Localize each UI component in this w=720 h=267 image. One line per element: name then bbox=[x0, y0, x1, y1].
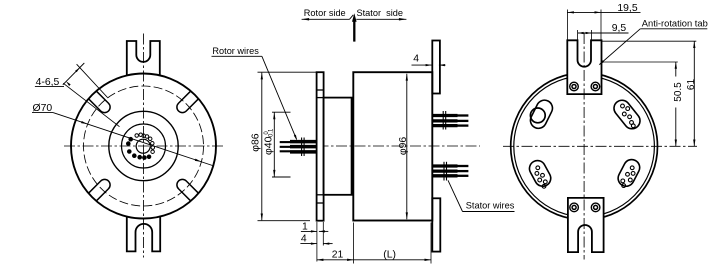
stator flange top tab bbox=[432, 41, 440, 94]
right view: top-left slot circle bbox=[530, 108, 545, 123]
stator wires upper bundle bbox=[432, 111, 468, 130]
svg-text:Stator side: Stator side bbox=[357, 8, 403, 18]
svg-text:21: 21 bbox=[332, 250, 344, 261]
dimension 4 (stator flange thickness) bbox=[412, 53, 446, 66]
right view: contact pad bottom-right bbox=[615, 157, 642, 189]
label Anti-rotation tab bbox=[599, 19, 708, 66]
svg-text:Anti-rotation tab: Anti-rotation tab bbox=[642, 19, 708, 29]
label Rotor side / Stator side bbox=[302, 8, 407, 21]
left view: rim slot bottom-right bbox=[177, 179, 199, 201]
left view: centerlines bbox=[64, 34, 223, 258]
rotor wires bundle bbox=[280, 138, 317, 157]
svg-text:61: 61 bbox=[686, 79, 697, 91]
middle view: centerline bbox=[299, 145, 480, 147]
dimension (L) bbox=[354, 223, 431, 264]
rotor flange step lines bbox=[317, 90, 324, 203]
svg-text:Rotor side: Rotor side bbox=[304, 8, 346, 18]
right view: bottom tab rivet left bbox=[570, 203, 579, 212]
left view: inner circle bbox=[122, 124, 166, 168]
svg-text:4: 4 bbox=[301, 234, 307, 245]
right view: anti-rotation tab top bbox=[567, 40, 601, 94]
dimension 61 bbox=[602, 41, 697, 146]
stator flange bottom tab bbox=[432, 198, 440, 251]
rotor flange plate bbox=[317, 72, 324, 221]
right view: top tab rivet right bbox=[591, 82, 600, 91]
right view: top tab rivet left bbox=[570, 82, 579, 91]
svg-text:-0.1: -0.1 bbox=[269, 128, 275, 139]
svg-text:4: 4 bbox=[413, 53, 419, 64]
left view: outer flange circle bbox=[71, 74, 216, 219]
left view: wire hole ring bbox=[126, 133, 154, 160]
stator body (φ96) bbox=[353, 72, 432, 220]
right view: pad holes top-right bbox=[621, 104, 636, 128]
right view: bottom tab rivet right bbox=[591, 203, 600, 212]
dimension 21 bbox=[317, 223, 354, 264]
svg-text:φ96: φ96 bbox=[398, 137, 409, 156]
right view: pad holes bottom-left bbox=[535, 166, 547, 188]
right view: contact pad bottom-left bbox=[527, 158, 554, 189]
right view: key slot top-left bbox=[528, 97, 555, 131]
label Stator wires bbox=[448, 180, 515, 211]
label Rotor wires bbox=[212, 46, 298, 141]
right view: centerlines bbox=[503, 33, 697, 260]
stator wires lower bundle bbox=[432, 162, 468, 181]
left view: bottom clevis tab bbox=[127, 217, 160, 252]
dimension φ40 0/-0.1 bbox=[263, 112, 290, 177]
left view: center bore circle bbox=[136, 139, 150, 153]
rotor hub bbox=[324, 98, 352, 195]
left view: rim slot top-left bbox=[88, 91, 110, 113]
dimension φ96 bbox=[398, 74, 409, 219]
svg-text:Stator wires: Stator wires bbox=[466, 201, 515, 211]
right view: bottom tab bbox=[568, 198, 604, 252]
right view: inner circle bbox=[514, 76, 655, 217]
dimension φ86 bbox=[250, 72, 316, 221]
dimension Ø70 (bolt circle) bbox=[32, 103, 213, 165]
dimension 50.5 bbox=[602, 62, 684, 146]
right view: pad holes bottom-right bbox=[621, 166, 635, 188]
left view: rim slot top-right bbox=[177, 91, 199, 113]
dimension 19,5 bbox=[567, 3, 640, 40]
left view: rim slot bottom-left bbox=[88, 179, 110, 201]
right view: outer circle bbox=[511, 73, 658, 220]
thick boundary arrow bbox=[352, 13, 357, 41]
svg-text:Rotor wires: Rotor wires bbox=[212, 46, 259, 56]
right view: contact pad top-right bbox=[611, 97, 643, 132]
svg-text:9,5: 9,5 bbox=[612, 23, 627, 34]
left view: hub circle bbox=[109, 111, 178, 180]
dimension 4-6,5 (slot size) bbox=[35, 63, 120, 127]
svg-text:(L): (L) bbox=[383, 250, 396, 261]
dimension 9,5 bbox=[578, 23, 629, 40]
left view: bolt circle (dashed, Ø70) bbox=[84, 86, 204, 206]
svg-text:1: 1 bbox=[302, 221, 308, 232]
dimension 1 (bottom left) bbox=[301, 221, 328, 261]
left view: top clevis tab bbox=[127, 41, 160, 76]
svg-text:φ86: φ86 bbox=[250, 133, 261, 152]
dimension 4 (rotor flange thickness) bbox=[300, 234, 332, 245]
svg-text:19,5: 19,5 bbox=[617, 3, 637, 14]
svg-text:50.5: 50.5 bbox=[673, 82, 684, 102]
